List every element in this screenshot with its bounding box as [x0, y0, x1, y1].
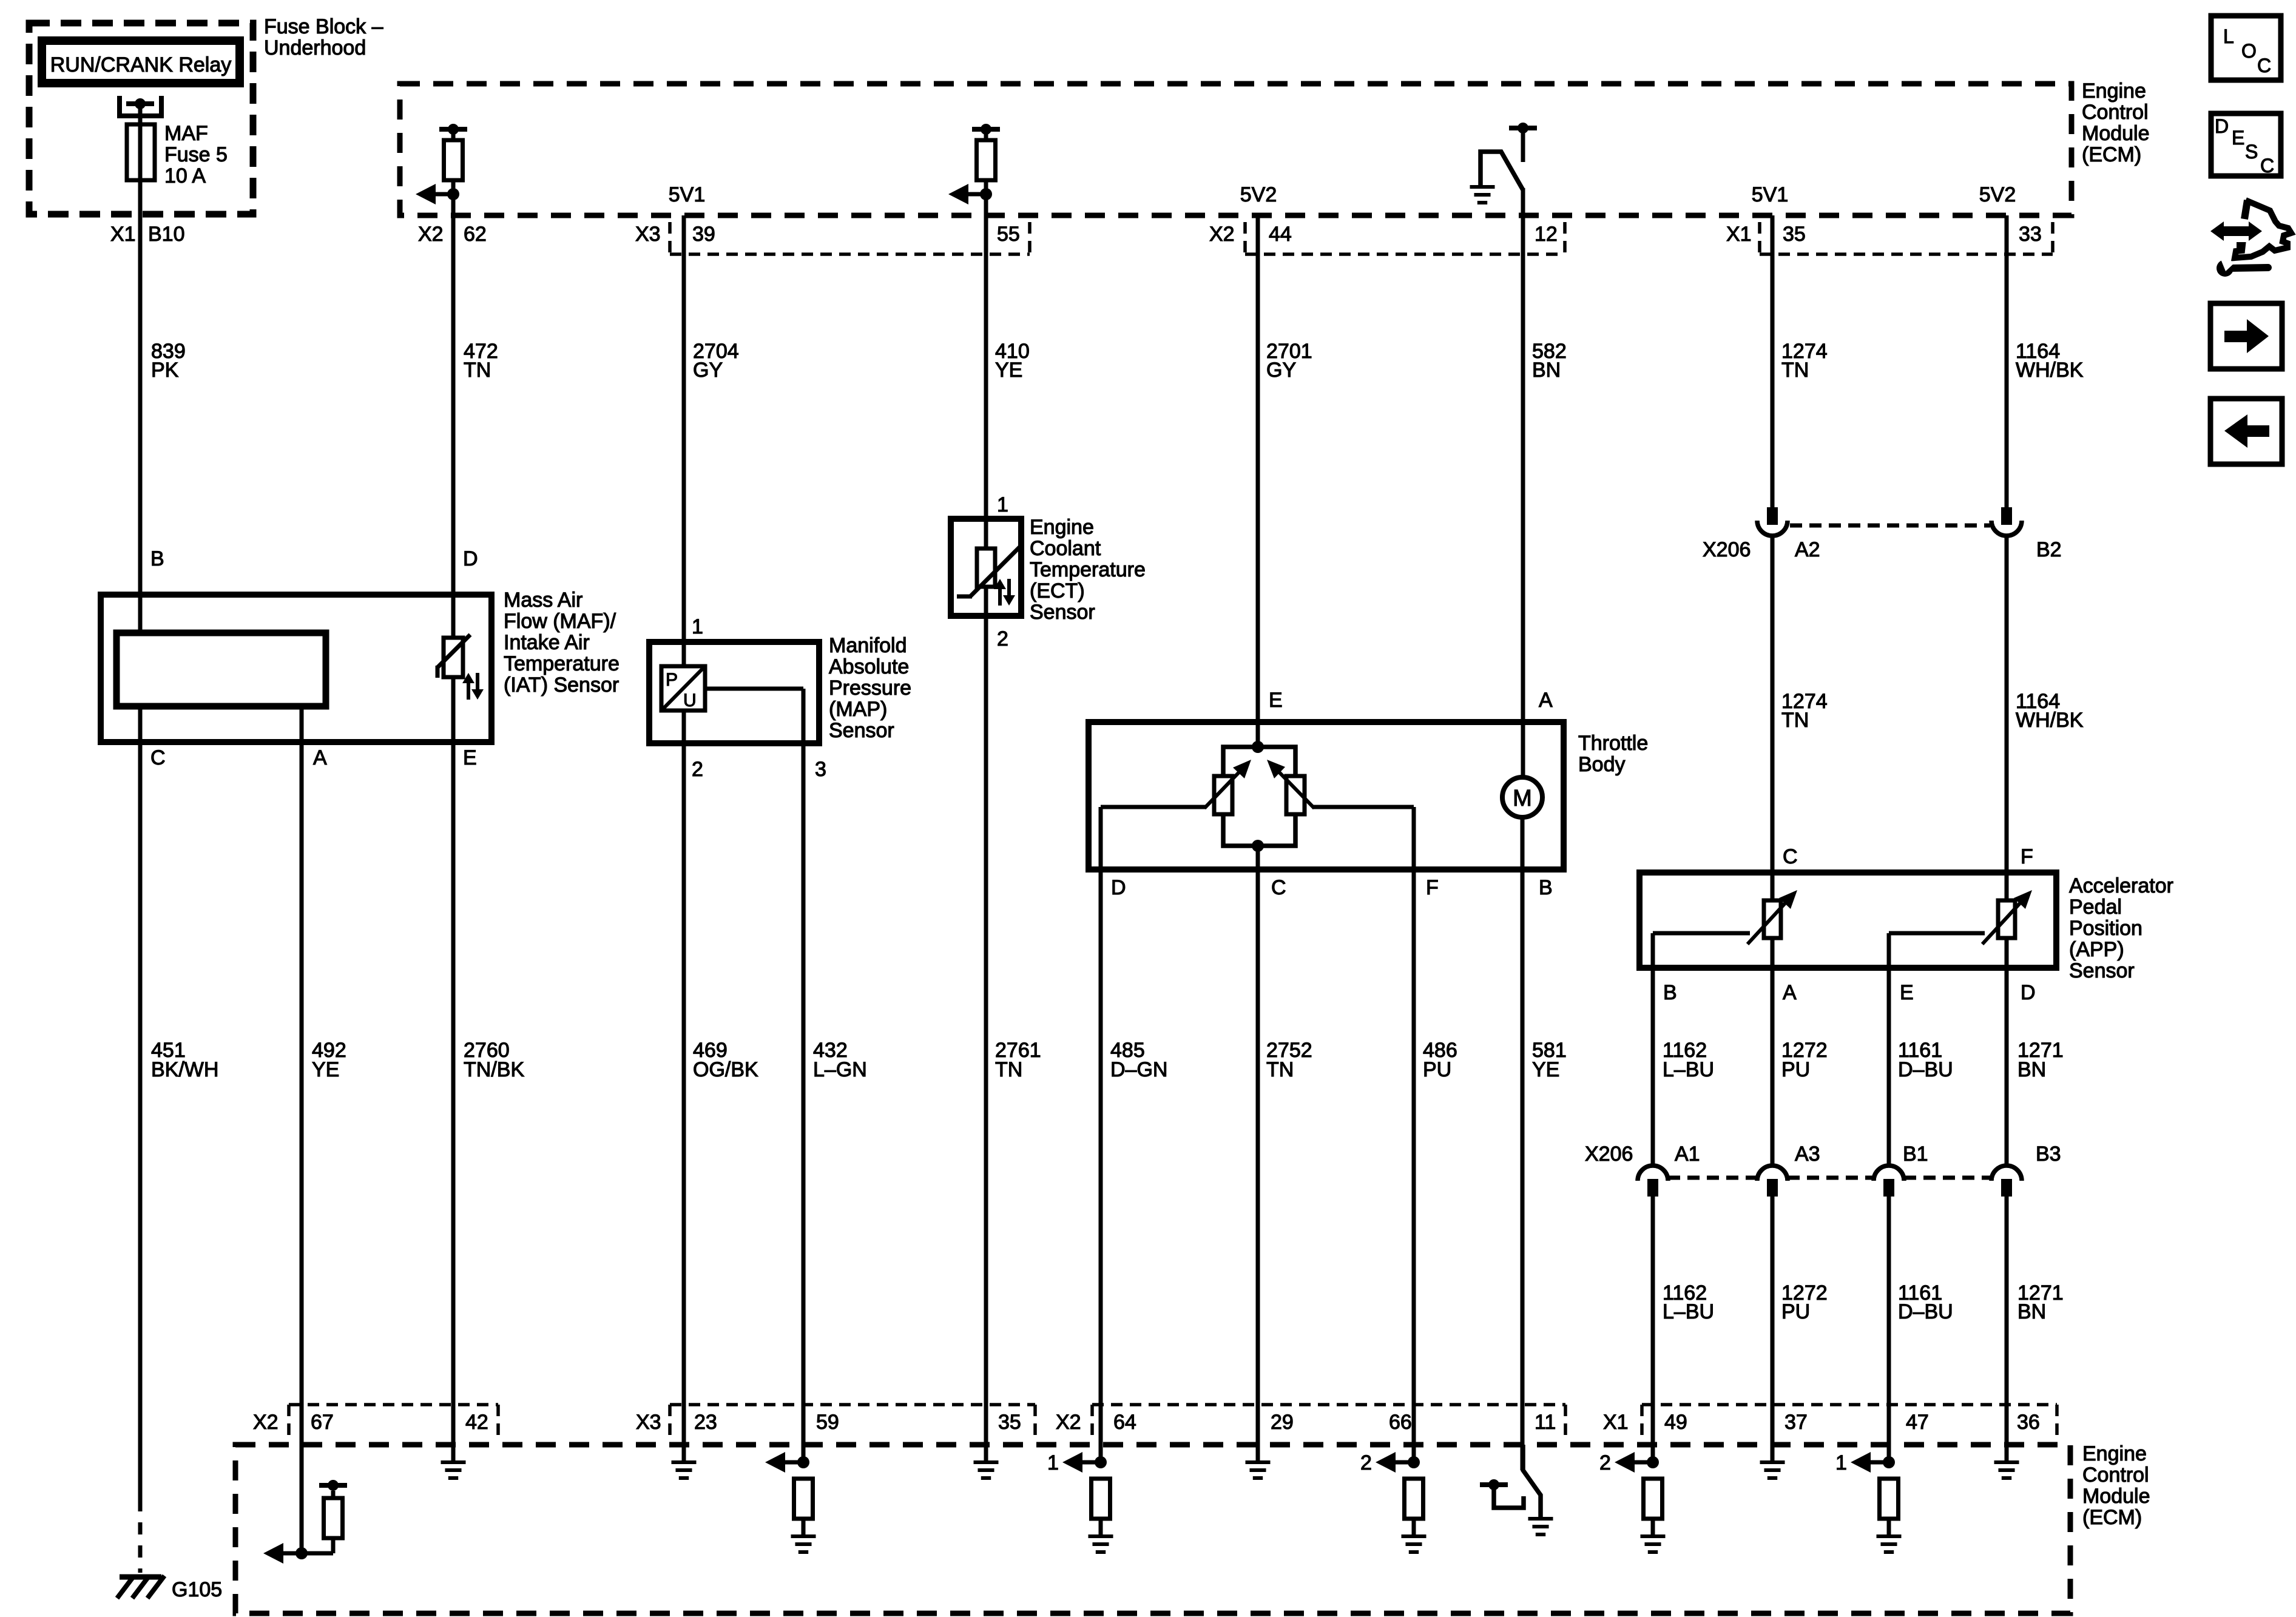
svg-text:B1: B1 [1903, 1143, 1928, 1166]
svg-text:11: 11 [1535, 1411, 1556, 1434]
ECM pin 11 internal switch to ground [1523, 1445, 1541, 1519]
svg-text:Coolant: Coolant [1030, 537, 1101, 560]
svg-text:G105: G105 [172, 1578, 222, 1601]
wire 1272 PU from X206 A3 to ECM pin 37 [1771, 1197, 1775, 1462]
icon data link connector (vehicle with wrench) [2210, 221, 2262, 241]
svg-text:35: 35 [998, 1411, 1021, 1434]
wire 451 BK/WH from MAF pin C to ground G105 (dashed ECM passthrough) [138, 706, 143, 1499]
svg-text:2: 2 [1360, 1451, 1372, 1474]
relay output terminal bracket [120, 96, 161, 116]
connector X206 pin B2 (in-line) [2001, 507, 2012, 525]
svg-text:D: D [2215, 115, 2229, 137]
dashed tie line X206 A1-A3 [1668, 1176, 1757, 1180]
wire 581 YE from throttle pin B (motor) to ECM pin 11 [1521, 817, 1525, 1470]
wire 1164 WH/BK from ECM pin 33 to connector X206 B2 [2005, 215, 2009, 510]
wire 839 PK from fuse X1-B10 to MAF sensor pin B [138, 104, 143, 633]
wire 472 TN from ECM pin 62 to MAF sensor pin D [451, 194, 456, 638]
ECM pin 47 internal resistor to ground with off-page arrow 1 [1883, 1456, 1895, 1468]
svg-text:Engine: Engine [1030, 516, 1094, 539]
svg-text:BN: BN [1532, 359, 1561, 382]
svg-text:L–BU: L–BU [1663, 1300, 1714, 1323]
svg-text:2: 2 [1599, 1451, 1611, 1474]
wire 1274 TN from ECM pin 35 to connector X206 A2 [1771, 215, 1775, 510]
svg-text:P: P [666, 670, 678, 690]
wire 2761 TN from ECT pin 2 to ECM pin 35 [984, 587, 988, 1462]
svg-text:C: C [150, 746, 166, 769]
Engine Coolant Temperature (ECT) sensor box [951, 519, 1021, 616]
wire 1162 L-BU from X206 A1 to ECM pin 49 [1651, 1197, 1655, 1462]
svg-text:Fuse 5: Fuse 5 [164, 143, 228, 166]
svg-text:A3: A3 [1795, 1143, 1820, 1166]
svg-text:X206: X206 [1703, 538, 1751, 561]
MAP pressure transducer symbol P/U [661, 666, 705, 711]
svg-text:E: E [1900, 981, 1914, 1004]
svg-text:66: 66 [1389, 1411, 1412, 1434]
svg-text:Engine: Engine [2082, 79, 2146, 103]
svg-text:Temperature: Temperature [1030, 558, 1146, 581]
svg-text:Sensor: Sensor [1030, 601, 1095, 624]
svg-text:29: 29 [1271, 1411, 1294, 1434]
svg-text:B3: B3 [2036, 1143, 2061, 1166]
svg-text:Engine: Engine [2082, 1442, 2147, 1465]
wire 1272 PU from APP pin A to X206 A3 [1771, 938, 1775, 1166]
TPS wiper wire to pin D [1101, 805, 1206, 809]
svg-text:B: B [150, 547, 164, 570]
wire 432 L-GN from MAP pin 3 to ECM pin 59 [802, 743, 806, 1462]
ECM pin 29 internal ground [1256, 1445, 1260, 1462]
svg-text:(ECM): (ECM) [2082, 143, 2141, 166]
svg-text:X3: X3 [635, 223, 661, 246]
wire from MAP transducer to pin 3 [705, 687, 803, 691]
wire 2704 GY from ECM pin 39 to MAP sensor pin 1 [682, 215, 686, 666]
bottom connector X2 dotted box (pins 67 42) [287, 1405, 291, 1437]
node at relay output (bar with dot) [126, 101, 154, 106]
ECT thermistor RT [977, 549, 995, 587]
svg-text:A1: A1 [1675, 1143, 1700, 1166]
svg-text:X2: X2 [1056, 1411, 1081, 1434]
svg-text:O: O [2241, 40, 2257, 62]
svg-text:5V1: 5V1 [1752, 183, 1789, 206]
TPS wiper wire to pin F [1312, 805, 1414, 809]
svg-text:Intake Air: Intake Air [504, 631, 590, 654]
Engine Control Module (ECM) top dashed box [400, 84, 2071, 215]
bottom connector X1 dotted box (pins 49 37 47 36) [1640, 1405, 1644, 1437]
Mass Air Flow (MAF)/Intake Air Temperature (IAT) sensor box [101, 595, 491, 742]
svg-text:YE: YE [312, 1058, 339, 1081]
svg-text:PK: PK [151, 359, 179, 382]
wire 492 YE from MAF pin A to ECM pin 67 [300, 706, 304, 1553]
svg-text:67: 67 [311, 1411, 334, 1434]
svg-text:44: 44 [1269, 223, 1292, 246]
svg-text:1: 1 [1047, 1451, 1059, 1474]
svg-text:Mass Air: Mass Air [504, 589, 582, 612]
svg-text:42: 42 [465, 1411, 488, 1434]
svg-text:Manifold: Manifold [829, 634, 907, 657]
svg-text:D–BU: D–BU [1898, 1300, 1953, 1323]
connector X206 pin A3 (in-line) [1757, 1166, 1788, 1181]
bottom connector X2 dotted box (pins 64 29 66 11) [1090, 1405, 1094, 1437]
svg-text:BN: BN [2017, 1300, 2046, 1323]
svg-text:MAF: MAF [164, 122, 208, 145]
ECM pin 35 internal ground [984, 1445, 988, 1462]
connector X206 pin A1 (in-line) [1638, 1166, 1668, 1181]
chassis ground G105 [120, 1575, 161, 1580]
connector X206 pin B1 (in-line) [1874, 1166, 1904, 1181]
svg-text:A: A [1783, 981, 1797, 1004]
ECM pin 49 internal resistor to ground with off-page arrow 2 [1647, 1456, 1659, 1468]
svg-text:A2: A2 [1795, 538, 1820, 561]
svg-text:62: 62 [464, 223, 487, 246]
Manifold Absolute Pressure (MAP) sensor box [649, 642, 819, 743]
svg-text:L–BU: L–BU [1663, 1058, 1714, 1081]
svg-text:S: S [2245, 141, 2258, 163]
svg-text:GY: GY [693, 359, 723, 382]
APP potentiometer 2 (F-D track) [1998, 900, 2015, 938]
dashed tie line X206 B1-B3 [1904, 1176, 1991, 1180]
svg-text:64: 64 [1113, 1411, 1136, 1434]
ECM pin 23 internal ground [682, 1445, 686, 1462]
svg-text:OG/BK: OG/BK [693, 1058, 758, 1081]
ground inside ECM at pin 12 switch [1470, 185, 1495, 189]
svg-text:(APP): (APP) [2069, 938, 2124, 961]
svg-text:Absolute: Absolute [829, 655, 909, 678]
svg-text:5V2: 5V2 [1979, 183, 2016, 206]
svg-text:36: 36 [2017, 1411, 2040, 1434]
svg-text:L: L [2223, 25, 2234, 47]
svg-text:(IAT) Sensor: (IAT) Sensor [504, 673, 619, 697]
Engine Control Module (ECM) bottom dashed box [235, 1445, 2070, 1613]
ECM pin 37 internal ground [1771, 1445, 1775, 1462]
svg-text:B2: B2 [2036, 538, 2062, 561]
svg-text:Sensor: Sensor [829, 719, 894, 742]
svg-text:YE: YE [1532, 1058, 1559, 1081]
svg-text:Accelerator: Accelerator [2069, 874, 2173, 897]
APP pot 2 wiper wire to pin E [1889, 931, 1985, 936]
svg-text:TN: TN [1266, 1058, 1294, 1081]
svg-text:Sensor: Sensor [2069, 959, 2135, 982]
svg-text:D–GN: D–GN [1110, 1058, 1167, 1081]
svg-text:C: C [2257, 55, 2271, 76]
svg-text:D: D [463, 547, 478, 570]
TPS potentiometer 1 (left) [1214, 776, 1232, 814]
ECM pin 36 internal ground [2005, 1445, 2009, 1462]
wire 1162 L-BU from APP pin B to X206 A1 [1651, 933, 1655, 1166]
svg-text:X206: X206 [1585, 1143, 1633, 1166]
svg-text:D–BU: D–BU [1898, 1058, 1953, 1081]
ECM pin 66 internal resistor to ground with off-page arrow 2 [1408, 1456, 1420, 1468]
svg-text:X1: X1 [1603, 1411, 1629, 1434]
svg-text:1: 1 [692, 615, 703, 638]
svg-text:TN: TN [995, 1058, 1022, 1081]
svg-text:TN: TN [464, 359, 491, 382]
svg-text:X1: X1 [110, 223, 136, 246]
internal resistor at ECM pin 62 (bar, resistor, junction, off-page arrow) [439, 127, 467, 132]
throttle motor M [1502, 777, 1542, 817]
svg-text:X2: X2 [418, 223, 444, 246]
fuse block - underhood (dashed enclosure) [29, 23, 253, 214]
icon box forward arrow [2210, 303, 2282, 369]
svg-text:C: C [2260, 155, 2274, 177]
svg-text:3: 3 [815, 758, 826, 781]
svg-text:BK/WH: BK/WH [151, 1058, 218, 1081]
IAT thermistor RT on pin D-E wire [444, 638, 463, 677]
svg-text:12: 12 [1535, 223, 1558, 246]
svg-text:BN: BN [2017, 1058, 2046, 1081]
svg-text:TN: TN [1781, 709, 1809, 732]
svg-text:(ECM): (ECM) [2082, 1506, 2142, 1529]
svg-text:(MAP): (MAP) [829, 698, 887, 721]
svg-text:TN/BK: TN/BK [464, 1058, 524, 1081]
svg-text:WH/BK: WH/BK [2016, 709, 2084, 732]
svg-text:TN: TN [1781, 359, 1809, 382]
Throttle Body box [1089, 722, 1564, 869]
wire 1161 D-BU from APP pin E to X206 B1 [1887, 933, 1891, 1166]
APP potentiometer 1 (C-A track) [1764, 900, 1781, 938]
svg-text:55: 55 [997, 223, 1020, 246]
wire 1161 D-BU from X206 B1 to ECM pin 47 [1887, 1197, 1891, 1462]
wire 2760 TN/BK from MAF pin E to ECM pin 42 [451, 677, 456, 1462]
svg-text:1: 1 [997, 493, 1008, 516]
svg-text:Position: Position [2069, 917, 2142, 940]
relay K (RUN/CRANK Relay) [42, 41, 240, 83]
APP pot 1 wiper wire to pin B [1653, 931, 1750, 936]
svg-text:1: 1 [1835, 1451, 1847, 1474]
svg-text:GY: GY [1266, 359, 1296, 382]
svg-text:PU: PU [1781, 1058, 1810, 1081]
svg-text:X3: X3 [636, 1411, 661, 1434]
wire 1271 BN from X206 B3 to ECM pin 36 [2005, 1197, 2009, 1462]
svg-text:23: 23 [694, 1411, 717, 1434]
svg-text:F: F [2021, 845, 2033, 868]
svg-text:5V2: 5V2 [1240, 183, 1277, 206]
svg-text:49: 49 [1664, 1411, 1687, 1434]
svg-text:Pedal: Pedal [2069, 896, 2122, 919]
svg-text:33: 33 [2019, 223, 2042, 246]
ECM pin 42 internal ground [451, 1445, 456, 1462]
internal switch to ground at ECM pin 12 [1509, 126, 1537, 130]
svg-text:PU: PU [1781, 1300, 1810, 1323]
fuse F5 (MAF Fuse 5, 10 A) [127, 124, 155, 180]
svg-text:D: D [2021, 981, 2036, 1004]
wire 582 BN from ECM pin 12 to throttle body pin A (motor) [1521, 188, 1525, 777]
icon box LOC [2211, 16, 2281, 80]
svg-text:U: U [683, 690, 697, 711]
ECT thermistor up/down arrows [998, 587, 1002, 606]
dashed tie line X206 A2-B2 [1790, 524, 1990, 528]
wire 2701 GY from ECM pin 44 to throttle body pin E [1256, 215, 1260, 747]
wire 485 D-GN from throttle pin D to ECM pin 64 [1099, 807, 1103, 1462]
svg-text:A: A [1539, 689, 1553, 712]
wire 486 PU from throttle pin F to ECM pin 66 [1412, 807, 1416, 1462]
svg-text:Module: Module [2082, 1485, 2150, 1508]
wire 1271 BN from APP pin D to X206 B3 [2005, 938, 2009, 1166]
svg-text:L–GN: L–GN [813, 1058, 867, 1081]
ECM pin 59 internal resistor to ground with off-page arrow [797, 1456, 809, 1468]
svg-text:RUN/CRANK Relay: RUN/CRANK Relay [50, 53, 232, 76]
svg-text:35: 35 [1783, 223, 1806, 246]
TPS potentiometer 2 (right) [1286, 776, 1305, 814]
svg-text:A: A [313, 746, 327, 769]
svg-text:2: 2 [692, 758, 703, 781]
ECM pin 67 internal resistor with off-page arrow [295, 1547, 308, 1559]
svg-text:39: 39 [692, 223, 715, 246]
Accelerator Pedal Position (APP) sensor box [1639, 873, 2056, 968]
internal resistor at ECM pin 55 (bar, resistor, junction, off-page arrow) [972, 127, 1000, 132]
svg-text:Control: Control [2082, 1463, 2149, 1487]
wire 1164 WH/BK from X206 B2 to APP sensor pin F [2005, 536, 2009, 900]
svg-text:B10: B10 [148, 223, 185, 246]
dashed tie line X206 A3-B1 [1788, 1176, 1874, 1180]
svg-text:2: 2 [997, 627, 1008, 650]
svg-text:47: 47 [1906, 1411, 1929, 1434]
svg-text:D: D [1111, 876, 1126, 899]
ECM pin 64 internal resistor to ground with off-page arrow 1 [1095, 1456, 1107, 1468]
wire 469 OG/BK from MAP pin 2 to ECM pin 23 [682, 711, 686, 1462]
throttle position sensor (dual potentiometer) loop [1223, 747, 1295, 776]
svg-text:Module: Module [2082, 122, 2150, 145]
svg-text:Temperature: Temperature [504, 652, 620, 675]
svg-text:E: E [1269, 689, 1283, 712]
icon box DESC [2211, 113, 2281, 176]
wire 2752 TN from throttle pin C to ECM pin 29 [1256, 846, 1260, 1462]
svg-text:B: B [1663, 981, 1677, 1004]
svg-text:10 A: 10 A [164, 164, 206, 187]
svg-text:M: M [1513, 786, 1532, 811]
svg-text:5V1: 5V1 [669, 183, 706, 206]
svg-text:X2: X2 [1209, 223, 1235, 246]
IAT thermistor up/down arrows [467, 681, 470, 700]
svg-text:Control: Control [2082, 101, 2149, 124]
svg-text:Throttle: Throttle [1578, 732, 1648, 755]
svg-text:37: 37 [1784, 1411, 1808, 1434]
connector X206 pin B3 (in-line) [1991, 1166, 2022, 1181]
svg-text:C: C [1783, 845, 1798, 868]
MAF sensor inner element box [116, 633, 326, 706]
connector X206 pin A2 (in-line) [1767, 507, 1778, 525]
svg-text:PU: PU [1423, 1058, 1451, 1081]
svg-text:X1: X1 [1726, 223, 1752, 246]
svg-text:Body: Body [1578, 753, 1626, 776]
svg-text:E: E [2232, 127, 2244, 149]
svg-text:59: 59 [816, 1411, 839, 1434]
svg-text:Fuse Block –: Fuse Block – [264, 15, 383, 38]
svg-text:Flow (MAF)/: Flow (MAF)/ [504, 610, 616, 633]
svg-text:X2: X2 [253, 1411, 279, 1434]
svg-text:C: C [1271, 876, 1286, 899]
svg-text:B: B [1539, 876, 1553, 899]
svg-text:(ECT): (ECT) [1030, 579, 1085, 603]
svg-text:Underhood: Underhood [264, 36, 366, 59]
svg-text:YE: YE [995, 359, 1022, 382]
svg-text:E: E [463, 746, 477, 769]
wire 1274 TN from X206 A2 to APP sensor pin C [1771, 536, 1775, 900]
svg-text:Pressure: Pressure [829, 677, 911, 700]
wire 410 YE from ECM pin 55 to ECT sensor pin 1 [984, 194, 988, 549]
svg-text:WH/BK: WH/BK [2016, 359, 2084, 382]
bottom connector X3 dotted box (pins 23 59 35) [668, 1405, 672, 1437]
svg-text:F: F [1426, 876, 1439, 899]
icon box back arrow [2210, 399, 2282, 464]
